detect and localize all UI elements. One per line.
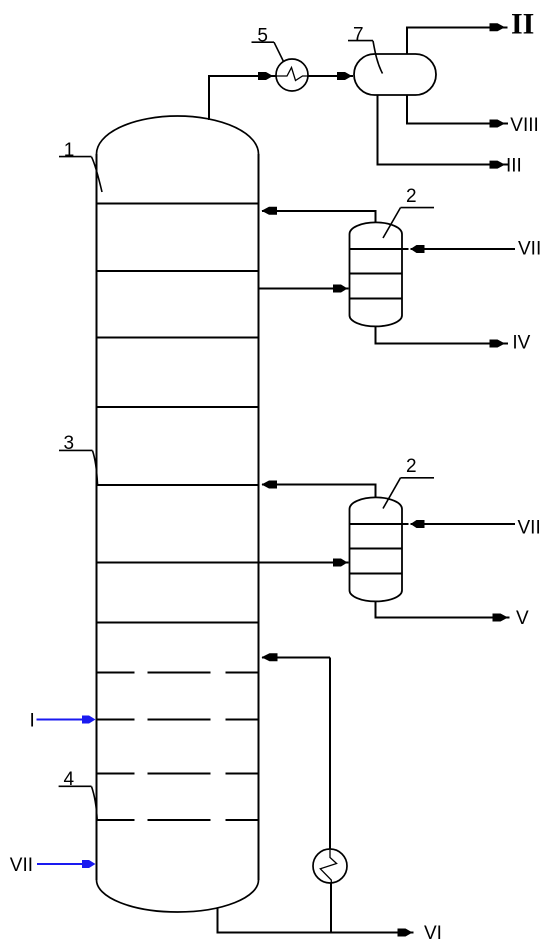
svg-text:VII: VII <box>518 518 541 539</box>
svg-text:VII: VII <box>10 855 33 876</box>
svg-text:III: III <box>506 155 522 176</box>
svg-text:4: 4 <box>64 769 75 790</box>
svg-text:VIII: VIII <box>510 115 539 136</box>
svg-text:VII: VII <box>518 239 541 260</box>
svg-text:VI: VI <box>424 923 442 944</box>
svg-text:5: 5 <box>257 26 268 47</box>
svg-text:I: I <box>30 710 35 731</box>
svg-text:V: V <box>516 608 529 629</box>
svg-text:3: 3 <box>64 433 75 454</box>
svg-text:7: 7 <box>353 24 364 45</box>
svg-text:II: II <box>511 8 534 41</box>
svg-text:IV: IV <box>512 333 530 354</box>
svg-text:2: 2 <box>406 456 417 477</box>
svg-text:2: 2 <box>406 186 417 207</box>
svg-text:1: 1 <box>64 140 75 161</box>
